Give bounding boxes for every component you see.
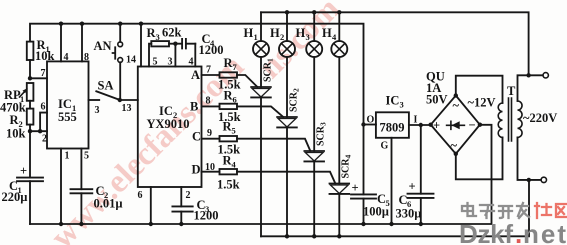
- svg-text:O: O: [367, 115, 375, 126]
- wire bridge bottom to transformer secondary bottom: [456, 137, 503, 179]
- label SCR3: [316, 122, 328, 146]
- svg-text:62k: 62k: [162, 26, 182, 40]
- watermark www.elecfans.com diagonal 2: [252, 0, 347, 86]
- lamp H1: [253, 12, 269, 57]
- wire R3 left to pin 5: [149, 44, 151, 67]
- node dot rail/IC2 pin14: [139, 22, 143, 26]
- svg-text:2: 2: [292, 88, 301, 92]
- capacitor C6 wire upper: [420, 125, 422, 194]
- svg-text:1.5k: 1.5k: [217, 178, 240, 192]
- svg-text:5: 5: [153, 57, 158, 68]
- capacitor C6 wire lower: [420, 198, 422, 224]
- svg-text:6: 6: [41, 102, 46, 113]
- label SCR2: [289, 88, 301, 112]
- svg-text:9: 9: [207, 128, 212, 139]
- node dot bridge left vertex: [429, 123, 433, 127]
- node dot C2/gnd: [79, 222, 83, 226]
- logo text Dzkf.net: [459, 219, 566, 245]
- svg-text:1: 1: [65, 151, 70, 162]
- svg-text:SCR: SCR: [341, 158, 352, 179]
- wire IC2 pin 2 to C3: [180, 187, 182, 206]
- svg-text:+: +: [433, 119, 440, 133]
- capacitor C4 plates: [175, 39, 195, 49]
- svg-text:H: H: [296, 26, 306, 40]
- svg-text:1200: 1200: [194, 209, 219, 223]
- node dot C6 top: [419, 123, 423, 127]
- node dot SCR2 cathode: [285, 234, 289, 238]
- svg-text:4: 4: [189, 57, 194, 68]
- svg-text:7: 7: [41, 68, 46, 79]
- node dot rail H2: [285, 10, 289, 14]
- svg-text:A: A: [191, 68, 200, 82]
- svg-text:3: 3: [168, 57, 173, 68]
- wire IC1 pin 1 to ground: [60, 149, 62, 225]
- thyristor SCR4: [330, 57, 350, 236]
- svg-text:B: B: [190, 100, 198, 114]
- wire C4 right to pin 4: [194, 44, 196, 67]
- op IC3 7809 box: [376, 112, 409, 138]
- resistor R7 body: [220, 72, 238, 77]
- potentiometer RP1 arrow: [20, 90, 27, 98]
- logo text dianzi kaifa shequ: [462, 203, 529, 218]
- svg-text:SCR: SCR: [316, 125, 327, 146]
- rectifier QU bridge diamond: [431, 96, 480, 154]
- svg-text:10: 10: [205, 162, 215, 173]
- svg-text:330µ: 330µ: [396, 207, 422, 221]
- node dot R1/RP1/pin7: [28, 76, 32, 80]
- capacitor C1 plates: [17, 178, 43, 182]
- wire R4 to SCR4 gate: [237, 172, 335, 184]
- wire C3 to ground: [180, 212, 182, 224]
- node dot rail H4: [337, 10, 341, 14]
- transformer T core: [509, 98, 512, 141]
- node dot bridge bottom vertex: [454, 152, 458, 156]
- svg-text:IC: IC: [386, 94, 400, 108]
- wire bridge top to transformer secondary top: [456, 76, 503, 103]
- svg-text:3: 3: [156, 32, 160, 42]
- node dot SCR3 cathode: [312, 234, 316, 238]
- wire 220V live rail over lamps: [261, 12, 529, 75]
- wire IC1 pin 2: [30, 130, 47, 132]
- svg-text:+: +: [352, 181, 359, 195]
- svg-text:IC: IC: [58, 97, 72, 111]
- svg-text:6: 6: [138, 190, 143, 201]
- capacitor C5 plates: [351, 194, 376, 198]
- wire live terminal stub: [529, 74, 543, 76]
- wire primary bottom to neutral terminal: [518, 137, 541, 180]
- wire IC3 O pin: [364, 124, 376, 126]
- node dot C3 gnd: [179, 222, 183, 226]
- resistor R1 body: [27, 42, 34, 60]
- node dot R2/C1/pin2: [28, 129, 32, 133]
- svg-text:SA: SA: [98, 79, 114, 93]
- pushbutton AN upper wire: [119, 24, 121, 42]
- wire IC2 pin 8: [202, 105, 220, 107]
- svg-text:8: 8: [206, 96, 211, 107]
- terminal circle 220V neutral: [541, 177, 546, 182]
- svg-text:+: +: [409, 180, 416, 194]
- svg-text:H: H: [322, 26, 332, 40]
- svg-text:H: H: [244, 26, 254, 40]
- wire 220V neutral lower rail: [261, 180, 529, 236]
- wire VDD top rail from R1 to IC3 output column: [30, 24, 364, 125]
- wire R6 to SCR2 gate: [237, 106, 283, 117]
- wire IC2 pin 10: [202, 171, 220, 173]
- node dot bridge right vertex: [478, 123, 482, 127]
- node dot SCR4 cathode: [337, 234, 341, 238]
- wire R5 to SCR3 gate: [237, 139, 310, 151]
- svg-text:3: 3: [400, 100, 404, 110]
- node dot pin6/pin2: [38, 129, 42, 133]
- resistor R5 body: [220, 136, 238, 141]
- svg-text:G: G: [381, 141, 389, 152]
- svg-text:3: 3: [95, 105, 100, 116]
- node dot bridge top vertex: [454, 93, 458, 97]
- wire C1 to ground rail: [29, 181, 31, 224]
- capacitor C6 plates: [408, 194, 434, 198]
- svg-text:C: C: [192, 130, 201, 144]
- node dot neutral terminal: [527, 178, 531, 182]
- node dot G gnd: [389, 222, 393, 226]
- wire IC1 pin 4 to rail: [60, 24, 62, 62]
- svg-text:1200: 1200: [199, 43, 224, 57]
- svg-text:1: 1: [266, 58, 275, 62]
- potentiometer RP1 body: [27, 83, 34, 101]
- lamp H3: [306, 12, 322, 57]
- wire node to C1: [29, 131, 31, 177]
- svg-text:~: ~: [451, 139, 458, 153]
- node dot pin1/gnd: [59, 222, 63, 226]
- wire IC3 I pin to bridge: [409, 124, 431, 126]
- wire C2 to ground: [80, 193, 82, 224]
- node dot C5 gnd: [361, 222, 365, 226]
- wire IC2 pin 13: [120, 99, 138, 101]
- wire R1 bottom to node: [29, 60, 31, 78]
- resistor R4 body: [220, 169, 238, 174]
- node dot C6 gnd: [419, 222, 423, 226]
- svg-text:1: 1: [254, 32, 258, 42]
- node dot rail/IC1 pin4: [59, 22, 63, 26]
- pushbutton AN lower wire: [119, 62, 121, 98]
- svg-text:3: 3: [319, 122, 328, 126]
- wire R2 bottom node: [29, 125, 31, 132]
- svg-text:13: 13: [122, 103, 132, 114]
- svg-text:2: 2: [280, 32, 284, 42]
- svg-text:555: 555: [58, 110, 77, 124]
- switch SA lever: [96, 91, 120, 100]
- capacitor C5 wire upper: [363, 125, 365, 195]
- lamp H2: [279, 12, 295, 57]
- svg-text:~: ~: [453, 99, 460, 113]
- svg-text:5: 5: [232, 126, 236, 136]
- node dot SA/AN/pin13: [118, 98, 122, 102]
- svg-text:7809: 7809: [380, 121, 405, 135]
- wire primary top to live terminal: [518, 75, 529, 101]
- svg-text:7: 7: [206, 65, 211, 76]
- thyristor SCR1: [251, 57, 271, 236]
- node dot VDD/IC3 out: [361, 122, 365, 126]
- op IC2 YX9010 box: [138, 67, 202, 188]
- node dot rail/IC1 pin8: [80, 22, 84, 26]
- svg-text:H: H: [270, 26, 280, 40]
- svg-text:6: 6: [233, 95, 237, 105]
- wire R7 to SCR1 gate: [237, 75, 257, 87]
- svg-text:SCR: SCR: [289, 91, 300, 112]
- svg-text:100µ: 100µ: [363, 205, 389, 219]
- svg-text:Dzkf: Dzkf: [459, 219, 513, 245]
- wire IC2 pin 9: [202, 138, 220, 140]
- svg-text:~12V: ~12V: [468, 96, 496, 110]
- label SCR1: [263, 58, 275, 82]
- lamp H4: [331, 12, 347, 57]
- wire IC3 G pin to ground: [391, 138, 393, 224]
- wire node to pin 3: [174, 44, 176, 67]
- svg-text:~220V: ~220V: [523, 111, 557, 125]
- resistor R2 body: [27, 109, 34, 125]
- svg-text:−: −: [469, 118, 476, 132]
- svg-text:SCR: SCR: [263, 61, 274, 82]
- svg-text:3: 3: [306, 32, 310, 42]
- svg-text:.: .: [515, 219, 522, 245]
- op IC1 555 box: [47, 61, 89, 148]
- wire R3 right to node: [169, 43, 175, 45]
- wire RP1 to R2: [29, 101, 31, 109]
- wire ground rail to bridge minus: [30, 125, 492, 224]
- svg-text:4: 4: [344, 155, 353, 159]
- svg-text:10k: 10k: [6, 127, 26, 141]
- watermark www.elecfans.com diagonal 1: [44, 49, 251, 245]
- svg-text:+: +: [20, 164, 27, 178]
- resistor R3 body: [151, 41, 169, 46]
- wire IC2 pin 6 to ground: [150, 187, 152, 224]
- svg-text:T: T: [507, 84, 516, 98]
- svg-text:YX9010: YX9010: [147, 117, 190, 131]
- capacitor C2 plates: [71, 189, 93, 193]
- pushbutton AN actuator bar: [113, 47, 116, 58]
- svg-text:2: 2: [186, 190, 191, 201]
- terminal circle 220V live: [543, 73, 548, 78]
- label SCR4: [341, 155, 353, 179]
- capacitor C5 wire lower: [363, 199, 365, 224]
- wire IC2 pin 7: [202, 74, 220, 76]
- wire IC2 pin 14 to rail: [140, 24, 142, 67]
- transformer T primary coil: [518, 101, 523, 137]
- svg-text:220µ: 220µ: [2, 190, 28, 204]
- svg-text:I: I: [414, 115, 418, 126]
- thyristor SCR2: [277, 57, 297, 236]
- capacitor C3 plates: [172, 206, 192, 211]
- transformer T secondary coil: [498, 103, 502, 137]
- thyristor SCR3: [304, 57, 324, 236]
- svg-text:IC: IC: [159, 104, 173, 118]
- svg-text:50V: 50V: [426, 93, 448, 107]
- svg-text:AN: AN: [94, 39, 112, 53]
- resistor R6 body: [220, 104, 238, 109]
- wire IC1 pin 5 to C2: [80, 149, 82, 190]
- wire IC1 pin 7: [30, 77, 47, 79]
- svg-text:5: 5: [84, 151, 89, 162]
- svg-text:D: D: [192, 163, 201, 177]
- svg-text:4: 4: [64, 52, 69, 63]
- node dot pin6 gnd: [149, 222, 153, 226]
- node dot rail/AN: [118, 22, 122, 26]
- wire IC1 pin 3 stub: [89, 99, 100, 101]
- svg-text:14: 14: [126, 55, 136, 66]
- svg-text:net: net: [523, 219, 566, 245]
- svg-text:8: 8: [84, 52, 89, 63]
- node dot rail H3: [312, 10, 316, 14]
- wire IC1 pin 6 L-shape: [40, 113, 47, 132]
- wire IC1 pin 8 to rail: [81, 24, 83, 62]
- node dot live terminal: [526, 73, 530, 77]
- svg-text:0.01µ: 0.01µ: [94, 197, 123, 211]
- bridge internal diode: [447, 121, 465, 129]
- pushbutton AN contacts: [118, 42, 123, 47]
- node dot R3/C4/pin3: [173, 42, 177, 46]
